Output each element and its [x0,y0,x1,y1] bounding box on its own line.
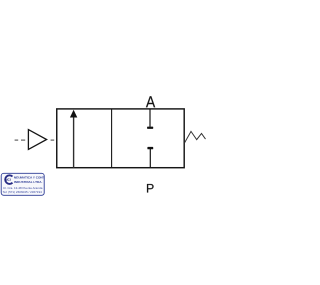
valve body rectangle [57,109,184,168]
port P blocked bar [147,147,153,149]
pilot dashed line right [51,139,55,141]
svg-text:INDUSTRIAL LTDA.: INDUSTRIAL LTDA. [14,180,43,184]
pilot dashed line left [15,139,19,141]
port A stem [149,109,151,127]
logo box border [1,173,44,195]
port A blocked bar [147,127,153,129]
logo emblem ring [5,175,12,184]
flow arrow head [70,110,77,118]
label P [147,184,154,193]
port P stem [149,149,151,168]
position divider line [111,109,113,168]
pilot actuator triangle [28,130,46,150]
return spring [185,131,206,142]
label A [146,96,155,107]
svg-text:Tel: (571) 2606045 / 2367194: Tel: (571) 2606045 / 2367194 [3,190,43,194]
svg-text:NEUMATICA Y CONTROL: NEUMATICA Y CONTROL [14,175,51,179]
flow arrow shaft [73,117,75,168]
logo emblem NCI text [5,178,10,180]
